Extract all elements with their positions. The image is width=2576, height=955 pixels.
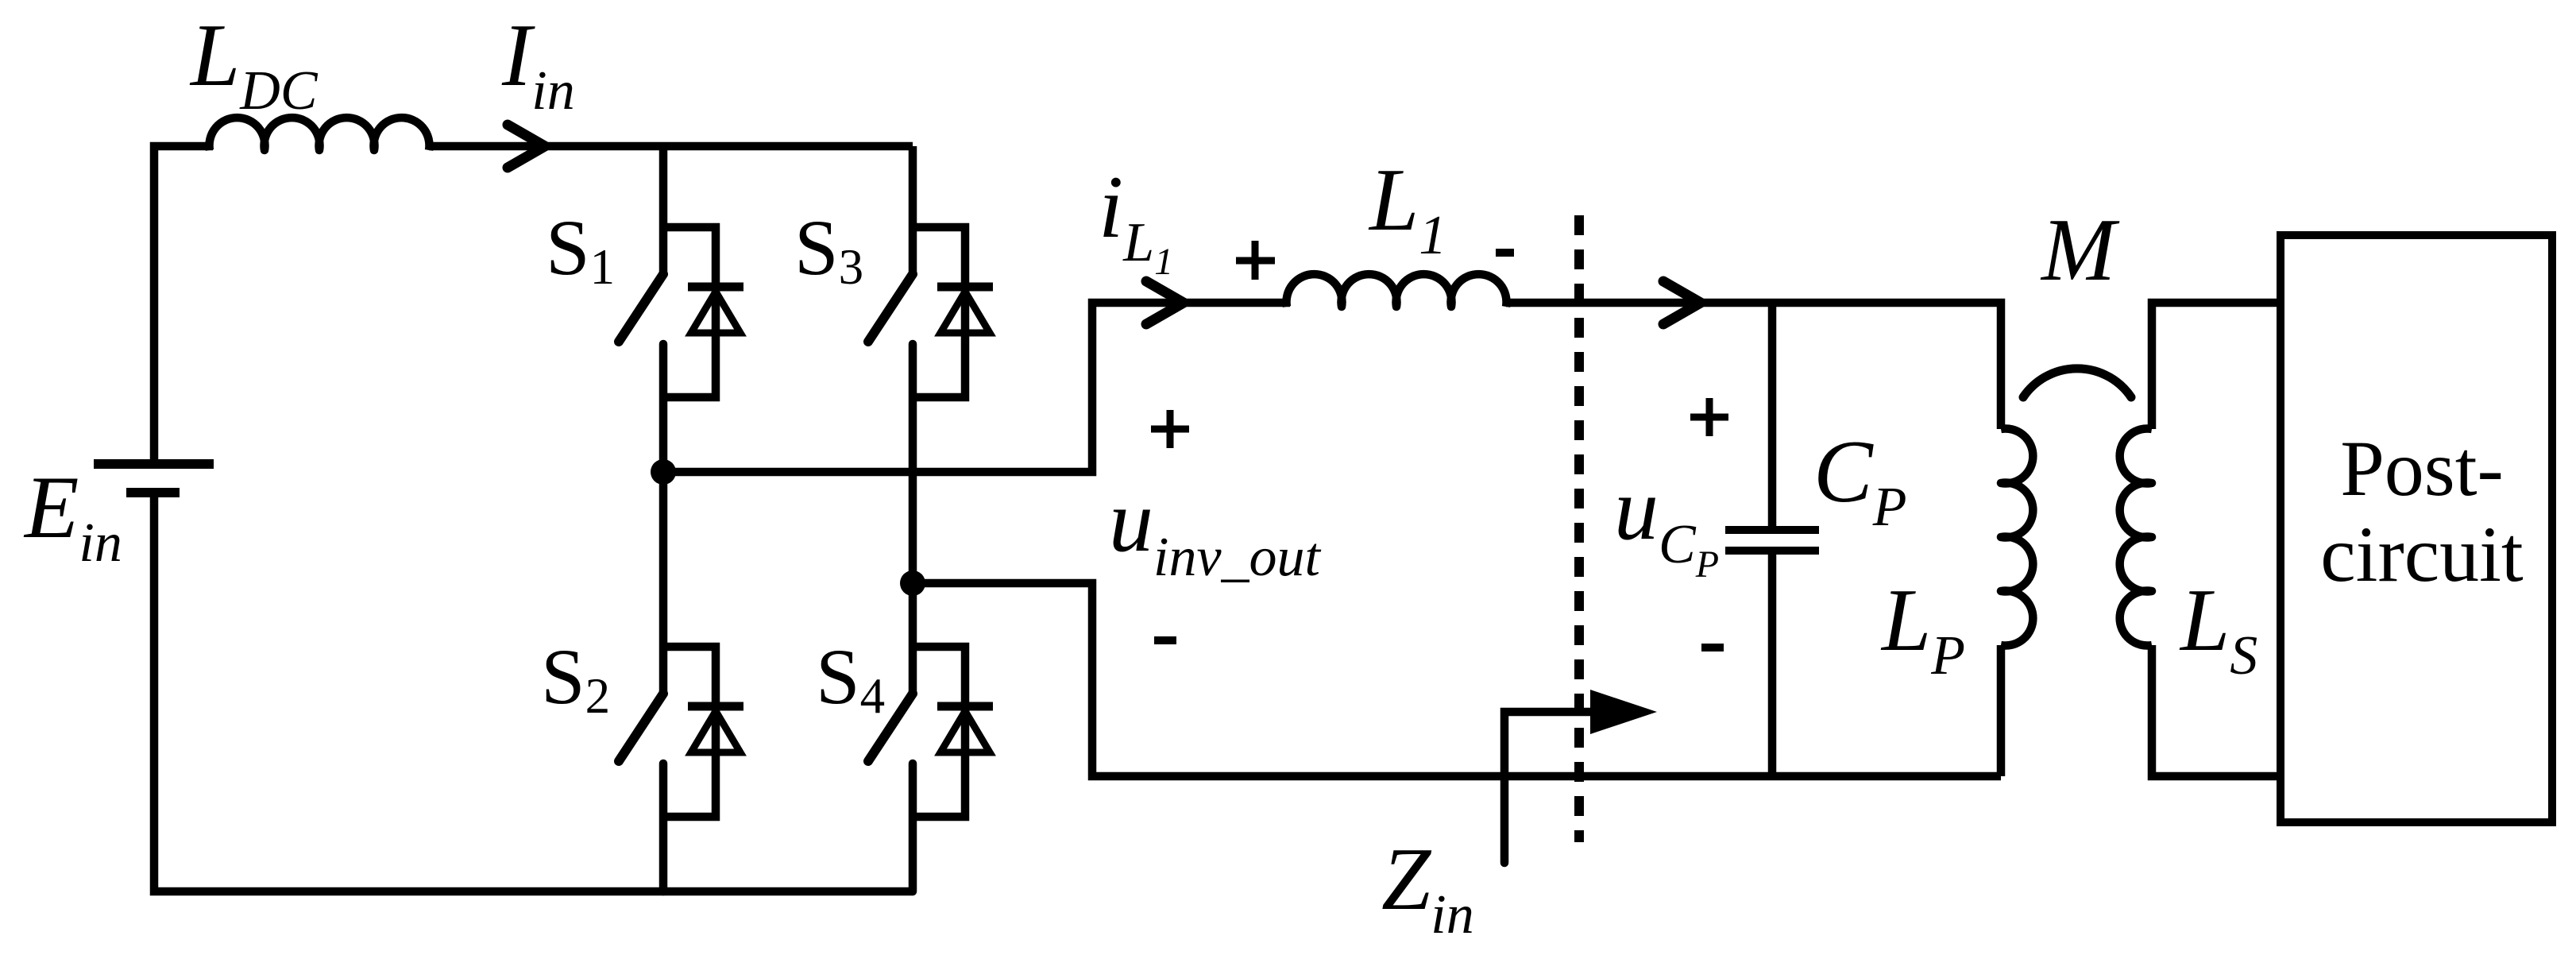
diode S2 cathode bar	[688, 702, 743, 711]
wire L1 to C_P junction and corner down to L_P	[1506, 303, 2001, 429]
wire S3 upper stem	[909, 146, 917, 274]
arrow into C_P node	[1663, 281, 1701, 324]
inductor L_P coil	[2001, 429, 2033, 646]
capacitor C_P plates	[1725, 526, 1819, 534]
diode S1 triangle	[691, 292, 740, 333]
diode S2 triangle	[691, 711, 740, 752]
wire from battery + up and right to L_DC	[154, 146, 213, 468]
wire S4 upper stem	[909, 583, 917, 694]
wire S4 lower stem	[909, 764, 917, 891]
wire battery - down to bottom rail and right to bridge	[154, 493, 913, 891]
battery E_in short plate	[126, 488, 180, 497]
svg-text:M: M	[2040, 201, 2120, 300]
wire S1 diode branch loop	[663, 227, 716, 397]
wire S3 lower stem	[909, 344, 917, 583]
diode S3 triangle	[940, 292, 990, 333]
battery E_in long plate	[94, 459, 214, 469]
inductor L1	[1287, 274, 1507, 307]
svg-text:circuit: circuit	[2320, 510, 2524, 598]
arrow I_in	[508, 125, 545, 168]
minus after L1	[1496, 249, 1514, 257]
switch S1 blade	[619, 274, 663, 342]
node A (bridge left midpoint)	[651, 459, 676, 485]
dashed boundary line	[1574, 215, 1584, 842]
Z_in bent arrow	[1504, 712, 1590, 863]
wire S1 upper stem	[659, 146, 668, 274]
wire C_P top leg	[1768, 303, 1777, 526]
switch S2 blade	[619, 694, 663, 761]
post-circuit box	[2281, 235, 2552, 822]
wire S3 diode branch loop	[913, 227, 965, 397]
diode S1 cathode bar	[688, 283, 743, 292]
switch S3 blade	[868, 274, 913, 342]
switch S4 blade	[868, 694, 913, 761]
node B (bridge right midpoint)	[900, 570, 925, 596]
inductor L_S coil	[2120, 429, 2152, 646]
svg-text:Post-: Post-	[2340, 424, 2504, 512]
wire L_S bottom to post-circuit	[2152, 645, 2281, 776]
wire L_S top to post-circuit	[2152, 303, 2281, 429]
diode S3 cathode bar	[937, 283, 993, 292]
plus before L1	[1236, 241, 1275, 280]
wire S2 diode branch loop	[663, 647, 716, 817]
arrow i_L1	[1146, 281, 1184, 324]
plus of u_inv_out	[1151, 410, 1189, 448]
wire node A to corner up to L1 rail	[663, 303, 1290, 472]
inductor L_DC	[210, 118, 430, 150]
wire S2 lower stem	[659, 764, 668, 891]
wire S4 diode branch loop	[913, 647, 965, 817]
plus of u_CP	[1690, 398, 1728, 436]
wire L_DC to bridge top with I_in arrow	[429, 142, 913, 151]
diode S4 cathode bar	[937, 702, 993, 711]
minus of u_CP	[1701, 644, 1724, 651]
wire C_P bottom leg	[1768, 555, 1777, 776]
diode S4 triangle	[940, 711, 990, 752]
wire node B right and down to bottom rail of resonant tank	[913, 583, 2001, 776]
mutual coupling arc M	[2023, 369, 2131, 397]
wire S1 lower stem	[659, 344, 668, 472]
minus of u_inv_out	[1154, 636, 1176, 644]
wire L_P bottom	[1997, 645, 2006, 776]
wire S2 upper stem	[659, 472, 668, 694]
